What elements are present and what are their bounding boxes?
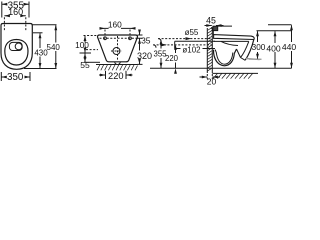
svg-text:300: 300 [252, 43, 266, 52]
svg-text:35: 35 [141, 36, 151, 46]
svg-text:45: 45 [206, 16, 216, 26]
svg-text:ø55: ø55 [185, 28, 199, 37]
svg-text:350: 350 [7, 72, 24, 83]
svg-text:100: 100 [75, 40, 89, 50]
svg-text:400: 400 [266, 44, 281, 54]
svg-text:220: 220 [108, 71, 124, 81]
svg-text:160: 160 [8, 7, 23, 17]
svg-text:440: 440 [282, 42, 297, 52]
svg-text:320: 320 [137, 51, 152, 61]
svg-text:ø102: ø102 [182, 46, 201, 55]
svg-text:55: 55 [80, 60, 90, 70]
svg-text:540: 540 [47, 43, 61, 52]
svg-text:220: 220 [165, 54, 179, 63]
svg-text:160: 160 [108, 19, 122, 29]
svg-text:20: 20 [207, 77, 217, 87]
